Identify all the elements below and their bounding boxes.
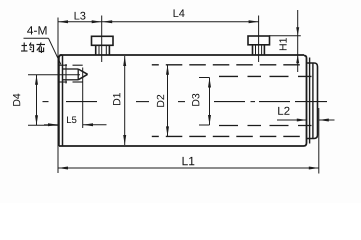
dashed bore line D3 top (219, 75, 316, 77)
screw hole (4-M) (59, 64, 88, 84)
label D1 (113, 93, 120, 105)
dimension L2 (277, 119, 335, 122)
dimension L3 (58, 20, 102, 23)
dimension L1 (58, 167, 319, 170)
wire inner left line (62, 55, 64, 146)
label D4 (13, 94, 20, 106)
dimension H1 (269, 10, 301, 72)
dimension L5 (44, 68, 107, 129)
label 4-M (27, 26, 46, 34)
dashed bore line D2 bottom (152, 135, 304, 137)
dashed bore line D2 top (152, 64, 304, 66)
dimension L4 (102, 20, 259, 23)
dashed bore line D3 bottom (219, 125, 316, 127)
均 right part (29, 45, 34, 52)
wire collar line 1 (309, 58, 311, 144)
label L1 (183, 157, 195, 165)
label D3 (192, 94, 199, 106)
label 均布 (hand drawn strokes) (21, 43, 45, 54)
label H1 (279, 38, 286, 50)
collar (right end spigot) (307, 63, 318, 139)
body outline (60, 54, 305, 56)
label L4 (174, 9, 185, 17)
label L5 (67, 117, 76, 124)
wire plug P1 center extension (101, 16, 103, 63)
dimension D3 (199, 78, 211, 126)
dimension D1 (123, 56, 126, 145)
dimension D4 (28, 75, 80, 125)
leader 4-M (24, 37, 49, 39)
centerline (43, 101, 328, 103)
wire plug P2 center extension (258, 16, 260, 63)
布 (37, 44, 46, 46)
dimension D2 (166, 65, 169, 137)
label D2 (157, 95, 164, 107)
wire left extension line (57, 18, 59, 174)
label L3 (75, 12, 86, 20)
wire right extension line (318, 108, 320, 174)
均 left radical (23, 43, 25, 52)
label L2 (278, 107, 289, 115)
plug P1 (left top) (92, 36, 114, 55)
plug P2 (right top) (248, 36, 270, 55)
wire collar line 2 (312, 63, 314, 139)
